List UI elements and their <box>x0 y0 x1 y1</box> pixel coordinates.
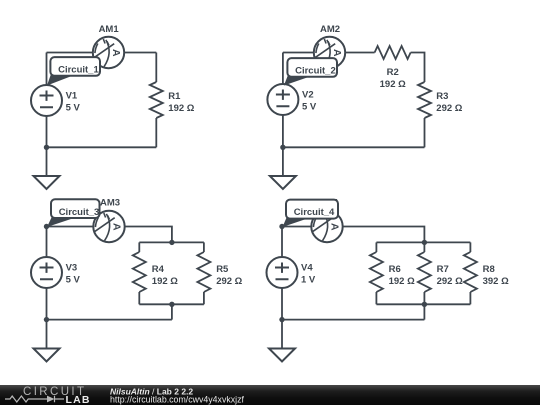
wire <box>46 116 48 176</box>
wire <box>423 304 425 319</box>
svg-text:A: A <box>110 49 122 57</box>
svg-text:292 Ω: 292 Ω <box>216 276 242 287</box>
wire <box>281 288 283 349</box>
wire <box>424 118 426 147</box>
wire <box>282 53 284 85</box>
svg-text:Circuit_3: Circuit_3 <box>59 207 100 218</box>
ground <box>34 176 60 189</box>
svg-text:R2: R2 <box>387 67 399 78</box>
voltage source V4 <box>267 257 298 288</box>
svg-text:R7: R7 <box>437 264 449 275</box>
node Circuit_4 callout <box>283 200 339 227</box>
svg-text:A: A <box>331 49 343 57</box>
svg-text:192 Ω: 192 Ω <box>380 79 406 90</box>
voltage source V3 <box>31 257 62 288</box>
resistor R3 <box>418 82 431 118</box>
svg-text:Circuit_1: Circuit_1 <box>58 65 99 76</box>
svg-text:Circuit_2: Circuit_2 <box>295 66 336 77</box>
wire <box>47 146 157 148</box>
ammeter AM3 <box>93 211 124 242</box>
wire <box>375 242 377 252</box>
wire <box>46 227 48 258</box>
wire <box>281 227 283 258</box>
wire <box>47 319 172 321</box>
junction <box>44 224 49 229</box>
svg-text:A: A <box>111 223 123 231</box>
footer bar <box>0 385 540 405</box>
svg-text:292 Ω: 292 Ω <box>436 103 462 114</box>
svg-text:LAB: LAB <box>66 394 91 405</box>
wire <box>203 292 205 304</box>
svg-text:R4: R4 <box>152 264 165 275</box>
wire <box>423 292 425 304</box>
svg-text:V4: V4 <box>301 263 313 274</box>
svg-text:392 Ω: 392 Ω <box>483 276 509 287</box>
svg-text:5 V: 5 V <box>302 102 317 113</box>
wire <box>376 303 470 305</box>
node Circuit_1 callout <box>47 57 100 85</box>
junction <box>422 302 427 307</box>
wire <box>376 241 470 243</box>
CircuitLab logo <box>5 386 91 405</box>
wire <box>46 53 48 86</box>
voltage source V1 <box>31 85 62 116</box>
junction <box>44 317 49 322</box>
node Circuit_2 callout <box>284 58 337 85</box>
voltage source V2 <box>267 84 298 115</box>
svg-text:Circuit_4: Circuit_4 <box>294 207 335 218</box>
svg-text:R6: R6 <box>389 264 401 275</box>
ground <box>269 349 295 362</box>
wire <box>282 227 424 243</box>
wire <box>46 288 48 349</box>
resistor R7 <box>418 252 431 292</box>
svg-text:V1: V1 <box>66 91 78 102</box>
svg-text:292 Ω: 292 Ω <box>437 276 463 287</box>
svg-text:AM3: AM3 <box>100 197 120 208</box>
svg-text:http://circuitlab.com/cwv4y4xv: http://circuitlab.com/cwv4y4xvkxjzf <box>110 395 245 405</box>
svg-text:R8: R8 <box>483 264 495 275</box>
ammeter AM2 <box>314 37 345 68</box>
svg-text:R1: R1 <box>168 91 181 102</box>
svg-text:192 Ω: 192 Ω <box>389 276 415 287</box>
ammeter AM1 <box>93 37 124 68</box>
wire <box>282 319 424 321</box>
wire <box>423 242 425 252</box>
svg-text:A: A <box>329 223 341 231</box>
svg-text:R5: R5 <box>216 264 229 275</box>
ground <box>270 176 296 189</box>
resistor R6 <box>370 252 383 292</box>
junction <box>280 145 285 150</box>
svg-text:5 V: 5 V <box>66 103 81 114</box>
wire <box>155 118 157 147</box>
junction <box>169 302 174 307</box>
svg-text:1 V: 1 V <box>301 275 316 286</box>
wire <box>155 53 157 83</box>
svg-text:5 V: 5 V <box>66 275 81 286</box>
resistor R1 <box>150 82 163 118</box>
junction <box>169 240 174 245</box>
resistor R2 <box>375 46 411 59</box>
junction <box>279 224 284 229</box>
wire <box>469 242 471 252</box>
junction <box>422 240 427 245</box>
svg-text:AM1: AM1 <box>99 24 120 35</box>
junction <box>44 145 49 150</box>
wire <box>469 292 471 304</box>
svg-text:R3: R3 <box>436 91 448 102</box>
wire <box>203 242 205 252</box>
resistor R8 <box>464 252 477 292</box>
wire <box>138 292 140 304</box>
resistor R4 <box>133 252 146 292</box>
svg-text:192 Ω: 192 Ω <box>152 276 178 287</box>
wire <box>283 52 375 54</box>
wire <box>375 292 377 304</box>
wire <box>139 303 204 305</box>
wire <box>171 304 173 319</box>
ground <box>34 349 60 362</box>
node Circuit_3 callout <box>47 199 100 227</box>
wire <box>283 146 425 148</box>
resistor R5 <box>197 252 210 292</box>
wire <box>282 115 284 176</box>
wire <box>411 53 425 83</box>
ammeter AM4 <box>311 211 342 242</box>
wire <box>47 227 172 243</box>
svg-text:V2: V2 <box>302 90 314 101</box>
svg-text:AM2: AM2 <box>320 24 340 35</box>
wire <box>138 242 140 252</box>
svg-text:V3: V3 <box>66 263 78 274</box>
svg-text:192 Ω: 192 Ω <box>168 103 194 114</box>
wire <box>139 241 204 243</box>
wire <box>47 52 157 54</box>
junction <box>279 317 284 322</box>
